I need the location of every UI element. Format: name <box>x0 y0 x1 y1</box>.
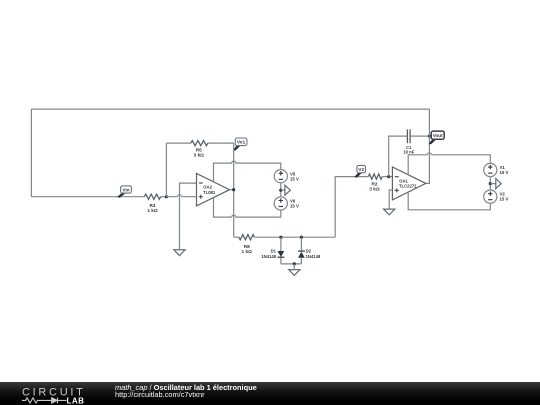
svg-text:15 V: 15 V <box>500 197 509 202</box>
label R8 1 kΩ <box>242 244 253 254</box>
wire OA2 V- pin and -15V rail with hop <box>214 198 281 218</box>
wire R2 to OA1 - input <box>382 176 392 178</box>
svg-text:OA2: OA2 <box>203 185 212 190</box>
wire Vout vertical to OA1 output <box>426 109 430 183</box>
wire Vo1 corner to R8 <box>234 236 239 238</box>
ground below OA2 <box>174 250 185 256</box>
svg-text:D2: D2 <box>306 249 312 254</box>
wire OA2 V+ pin and +15V rail with hop <box>214 161 281 182</box>
junction node A <box>165 195 168 198</box>
wire feedback loop left vertical <box>30 109 32 197</box>
junction D1 top <box>279 236 282 239</box>
svg-text:15 V: 15 V <box>290 176 299 181</box>
label D1 1N4148 <box>261 249 276 259</box>
wire node A up to R5 <box>165 143 167 197</box>
wire C1 branch up <box>389 136 408 177</box>
svg-text:1 kΩ: 1 kΩ <box>147 208 158 213</box>
CircuitLab logo <box>22 384 97 404</box>
wire diode common bottom <box>281 263 302 265</box>
label C1 10 nF <box>403 145 414 155</box>
junction OA2 output <box>232 188 235 191</box>
schematic title <box>115 384 257 399</box>
svg-text:TL081: TL081 <box>203 190 216 195</box>
svg-text:OA1: OA1 <box>399 178 408 183</box>
wire corner up to V2 net <box>335 177 368 238</box>
wire OA1 V+ pin and +15V rail with hop <box>408 153 490 175</box>
svg-text:1N4148: 1N4148 <box>306 254 321 259</box>
junction V1 V2 midpoint <box>489 182 492 185</box>
wire R5 right to Vo1 corner <box>208 142 234 144</box>
net flag V2 <box>355 165 365 177</box>
wire Vin input to R4 <box>31 196 144 198</box>
junction Vout node <box>428 135 431 138</box>
wire V1-V2 midpoint <box>489 177 491 190</box>
wire to R5 left <box>166 142 191 144</box>
voltage source V2 15 V <box>484 190 509 203</box>
ground below diodes <box>289 270 300 276</box>
resistor R5 <box>191 141 208 146</box>
svg-text:3 kΩ: 3 kΩ <box>194 153 205 158</box>
svg-text:R5: R5 <box>196 147 202 152</box>
svg-text:V2: V2 <box>358 167 364 172</box>
capacitor C1 10 nF <box>407 129 410 143</box>
svg-text:Vo1: Vo1 <box>237 140 246 145</box>
wire Vo1 vertical (OA2 output net) <box>233 143 235 237</box>
wire midpoint to ground flag <box>281 189 285 191</box>
op-amp OA2 TL081 <box>197 174 230 206</box>
diode D2 1N4148 <box>298 237 305 264</box>
wire midpoint to ground flag right <box>490 183 496 185</box>
junction V5 V6 midpoint <box>279 189 282 192</box>
svg-text:15 V: 15 V <box>290 204 299 209</box>
ground right of V1 V2 <box>496 179 501 189</box>
wire stem to ground <box>293 264 295 270</box>
net flag Vout <box>429 131 444 144</box>
svg-text:Vout: Vout <box>433 133 443 138</box>
diode D1 1N4148 <box>278 237 285 264</box>
voltage source V6 15 V <box>274 197 299 210</box>
junction D2 top <box>300 236 303 239</box>
label R5 3 kΩ <box>194 147 205 157</box>
svg-text:D1: D1 <box>271 249 277 254</box>
wire node A to OA2 + input with hop <box>166 195 196 197</box>
svg-text:R8: R8 <box>244 244 250 249</box>
svg-text:R4: R4 <box>150 203 156 208</box>
footer bar <box>0 382 540 405</box>
wire OA2 - input to ground <box>180 183 197 250</box>
wire OA2 output pin <box>230 189 234 191</box>
net flag Vin <box>118 186 131 197</box>
svg-text:3 kΩ: 3 kΩ <box>369 187 380 192</box>
svg-text:TLC2272: TLC2272 <box>399 184 417 189</box>
op-amp OA1 TLC2272 <box>392 167 425 200</box>
resistor R8 <box>239 235 255 240</box>
wire V5-V6 midpoint <box>280 183 282 197</box>
junction C1 branch <box>387 175 390 178</box>
net flag Vo1 <box>234 138 247 150</box>
wire R8 to diodes to corner <box>254 236 335 238</box>
voltage source V5 15 V <box>274 170 299 183</box>
wire R4 to node A <box>161 196 167 198</box>
resistor R2 <box>368 174 382 179</box>
label D2 1N4148 <box>306 249 321 259</box>
svg-text:15 V: 15 V <box>500 170 509 175</box>
svg-text:LAB: LAB <box>67 396 85 404</box>
label R4 1 kΩ <box>147 203 158 213</box>
wire feedback loop top horizontal <box>31 108 429 110</box>
label R2 3 kΩ <box>369 181 380 191</box>
wire C1 to Vout node <box>410 135 430 137</box>
svg-text:R2: R2 <box>372 181 378 186</box>
junction diode ground stem <box>293 262 296 265</box>
ground below OA1 <box>384 209 395 215</box>
svg-text:1 kΩ: 1 kΩ <box>242 249 253 254</box>
svg-text:1N4148: 1N4148 <box>261 254 276 259</box>
wire OA1 + input to ground <box>389 190 392 209</box>
svg-text:10 nF: 10 nF <box>403 150 414 155</box>
ground right of V5 V6 <box>285 185 290 195</box>
voltage source V1 15 V <box>484 163 509 176</box>
resistor R4 <box>144 194 160 199</box>
svg-text:Vin: Vin <box>122 187 129 192</box>
wire OA1 V- pin and -15V rail <box>408 192 490 210</box>
